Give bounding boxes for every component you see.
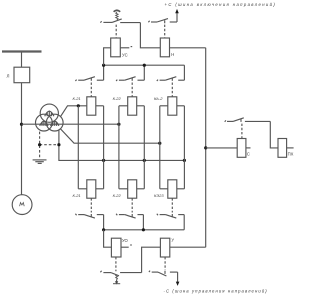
junction (143, 64, 146, 67)
wire top bus (104, 64, 185, 66)
contact U lower (149, 271, 178, 276)
svg-text:У: У (171, 238, 174, 243)
contact K-21 lower (75, 214, 103, 230)
wire U right tab (170, 246, 206, 248)
wire to relay PS (206, 147, 238, 149)
svg-text:Л: Л (7, 74, 10, 79)
wire phase C diagonal to line2 (61, 129, 160, 143)
relay PH coil (278, 139, 287, 158)
pushbutton contact SB2 (100, 271, 141, 285)
junction (204, 146, 207, 149)
neutral dashed link (39, 132, 41, 159)
arrow to plus bus (176, 12, 178, 23)
svg-text:Н: Н (171, 52, 174, 57)
wire phase down to line3 (59, 130, 184, 161)
relay K-23 upper coil (168, 97, 177, 115)
relay K-22 upper coil (128, 97, 137, 115)
relay US coil (111, 38, 121, 57)
dashed link U (164, 257, 166, 270)
junction (143, 159, 146, 162)
svg-text:ПХ: ПХ (288, 152, 294, 157)
contact PS (225, 118, 271, 122)
transformer T1 left winding (36, 114, 53, 131)
junction (117, 123, 120, 126)
dashed link K-22 lower (131, 198, 133, 212)
junction (38, 143, 41, 146)
arrow to minus bus (177, 272, 179, 283)
contact N upper (148, 19, 177, 24)
relay K-21 upper coil (87, 97, 96, 115)
rail col2 left (118, 106, 120, 189)
wire disconnector to motor (21, 83, 23, 195)
junction (102, 228, 105, 231)
relay K-23 lower coil (168, 180, 177, 198)
junction (102, 64, 105, 67)
relay UO coil (111, 238, 121, 257)
svg-text:К-22: К-22 (113, 96, 122, 101)
svg-text:К-21: К-21 (73, 96, 81, 101)
junction (102, 159, 105, 162)
rail col2 right (143, 106, 145, 189)
svg-text:К-21: К-21 (73, 193, 81, 198)
junction (183, 159, 186, 162)
rail col3 left (159, 106, 161, 189)
rail col3 right (183, 106, 185, 189)
relay N coil (160, 38, 169, 57)
contact K-23 upper (157, 65, 185, 81)
contact K-22 lower (116, 214, 143, 230)
contact K-22 upper (116, 65, 144, 81)
wire UO right stub (121, 246, 129, 248)
wire phase A diagonal to node dot (61, 106, 87, 117)
node A junction dot (20, 123, 23, 126)
svg-text:УС: УС (122, 52, 128, 57)
motor M (12, 195, 32, 215)
wire busbar to disconnector (21, 53, 23, 68)
svg-text:К-22: К-22 (113, 193, 122, 198)
relay U coil (160, 238, 169, 257)
dashed link K-21 lower (90, 198, 92, 212)
dashed link N (164, 25, 166, 38)
transformer T1 top winding (40, 104, 58, 122)
relay K-22 lower coil (128, 180, 137, 198)
dashed link US (115, 25, 117, 38)
pushbutton contact SB1 (100, 10, 140, 22)
relay K-21 lower coil (87, 180, 96, 198)
dashed link K-23 (171, 83, 173, 97)
contact K-21 upper (75, 65, 103, 81)
wire right vertical (205, 48, 207, 247)
disconnector box L (14, 67, 30, 83)
wire N right tab (170, 47, 206, 49)
transformer T1 right winding (46, 114, 63, 131)
wire contact PS to relay PH (270, 121, 278, 147)
svg-text:С: С (247, 151, 250, 156)
wire contact1 to relay N (140, 23, 160, 48)
svg-text:КЭ23: КЭ23 (154, 193, 164, 198)
svg-text:+С (шина включения направлений: +С (шина включения направлений) (165, 2, 277, 7)
dashed link K-23 lower (171, 198, 173, 212)
dashed link K-22 (131, 83, 133, 97)
junction (77, 104, 80, 107)
junction (158, 142, 161, 145)
junction (142, 228, 145, 231)
junction (57, 143, 60, 146)
rail col1 right (103, 106, 105, 189)
svg-text:-С (шина управления направлени: -С (шина управления направлений) (164, 289, 268, 294)
relay PS coil (237, 139, 246, 158)
dashed link K-21 (90, 83, 92, 97)
contact K-23 lower (157, 214, 184, 230)
wire US right stub (120, 47, 129, 49)
ground (33, 159, 47, 161)
wire bottom bus (104, 229, 185, 231)
rail col1 left (77, 106, 79, 189)
wire line1 (22, 123, 119, 125)
dashed link UO (115, 257, 117, 271)
svg-text:УО: УО (122, 238, 129, 243)
svg-text:КЬ-2: КЬ-2 (154, 96, 163, 101)
wire contact SB2 to relay U (142, 247, 161, 272)
dashed link PS (241, 124, 243, 139)
busbar (2, 50, 42, 52)
wire US left tab (104, 48, 111, 65)
wire UO left tab (104, 230, 112, 247)
